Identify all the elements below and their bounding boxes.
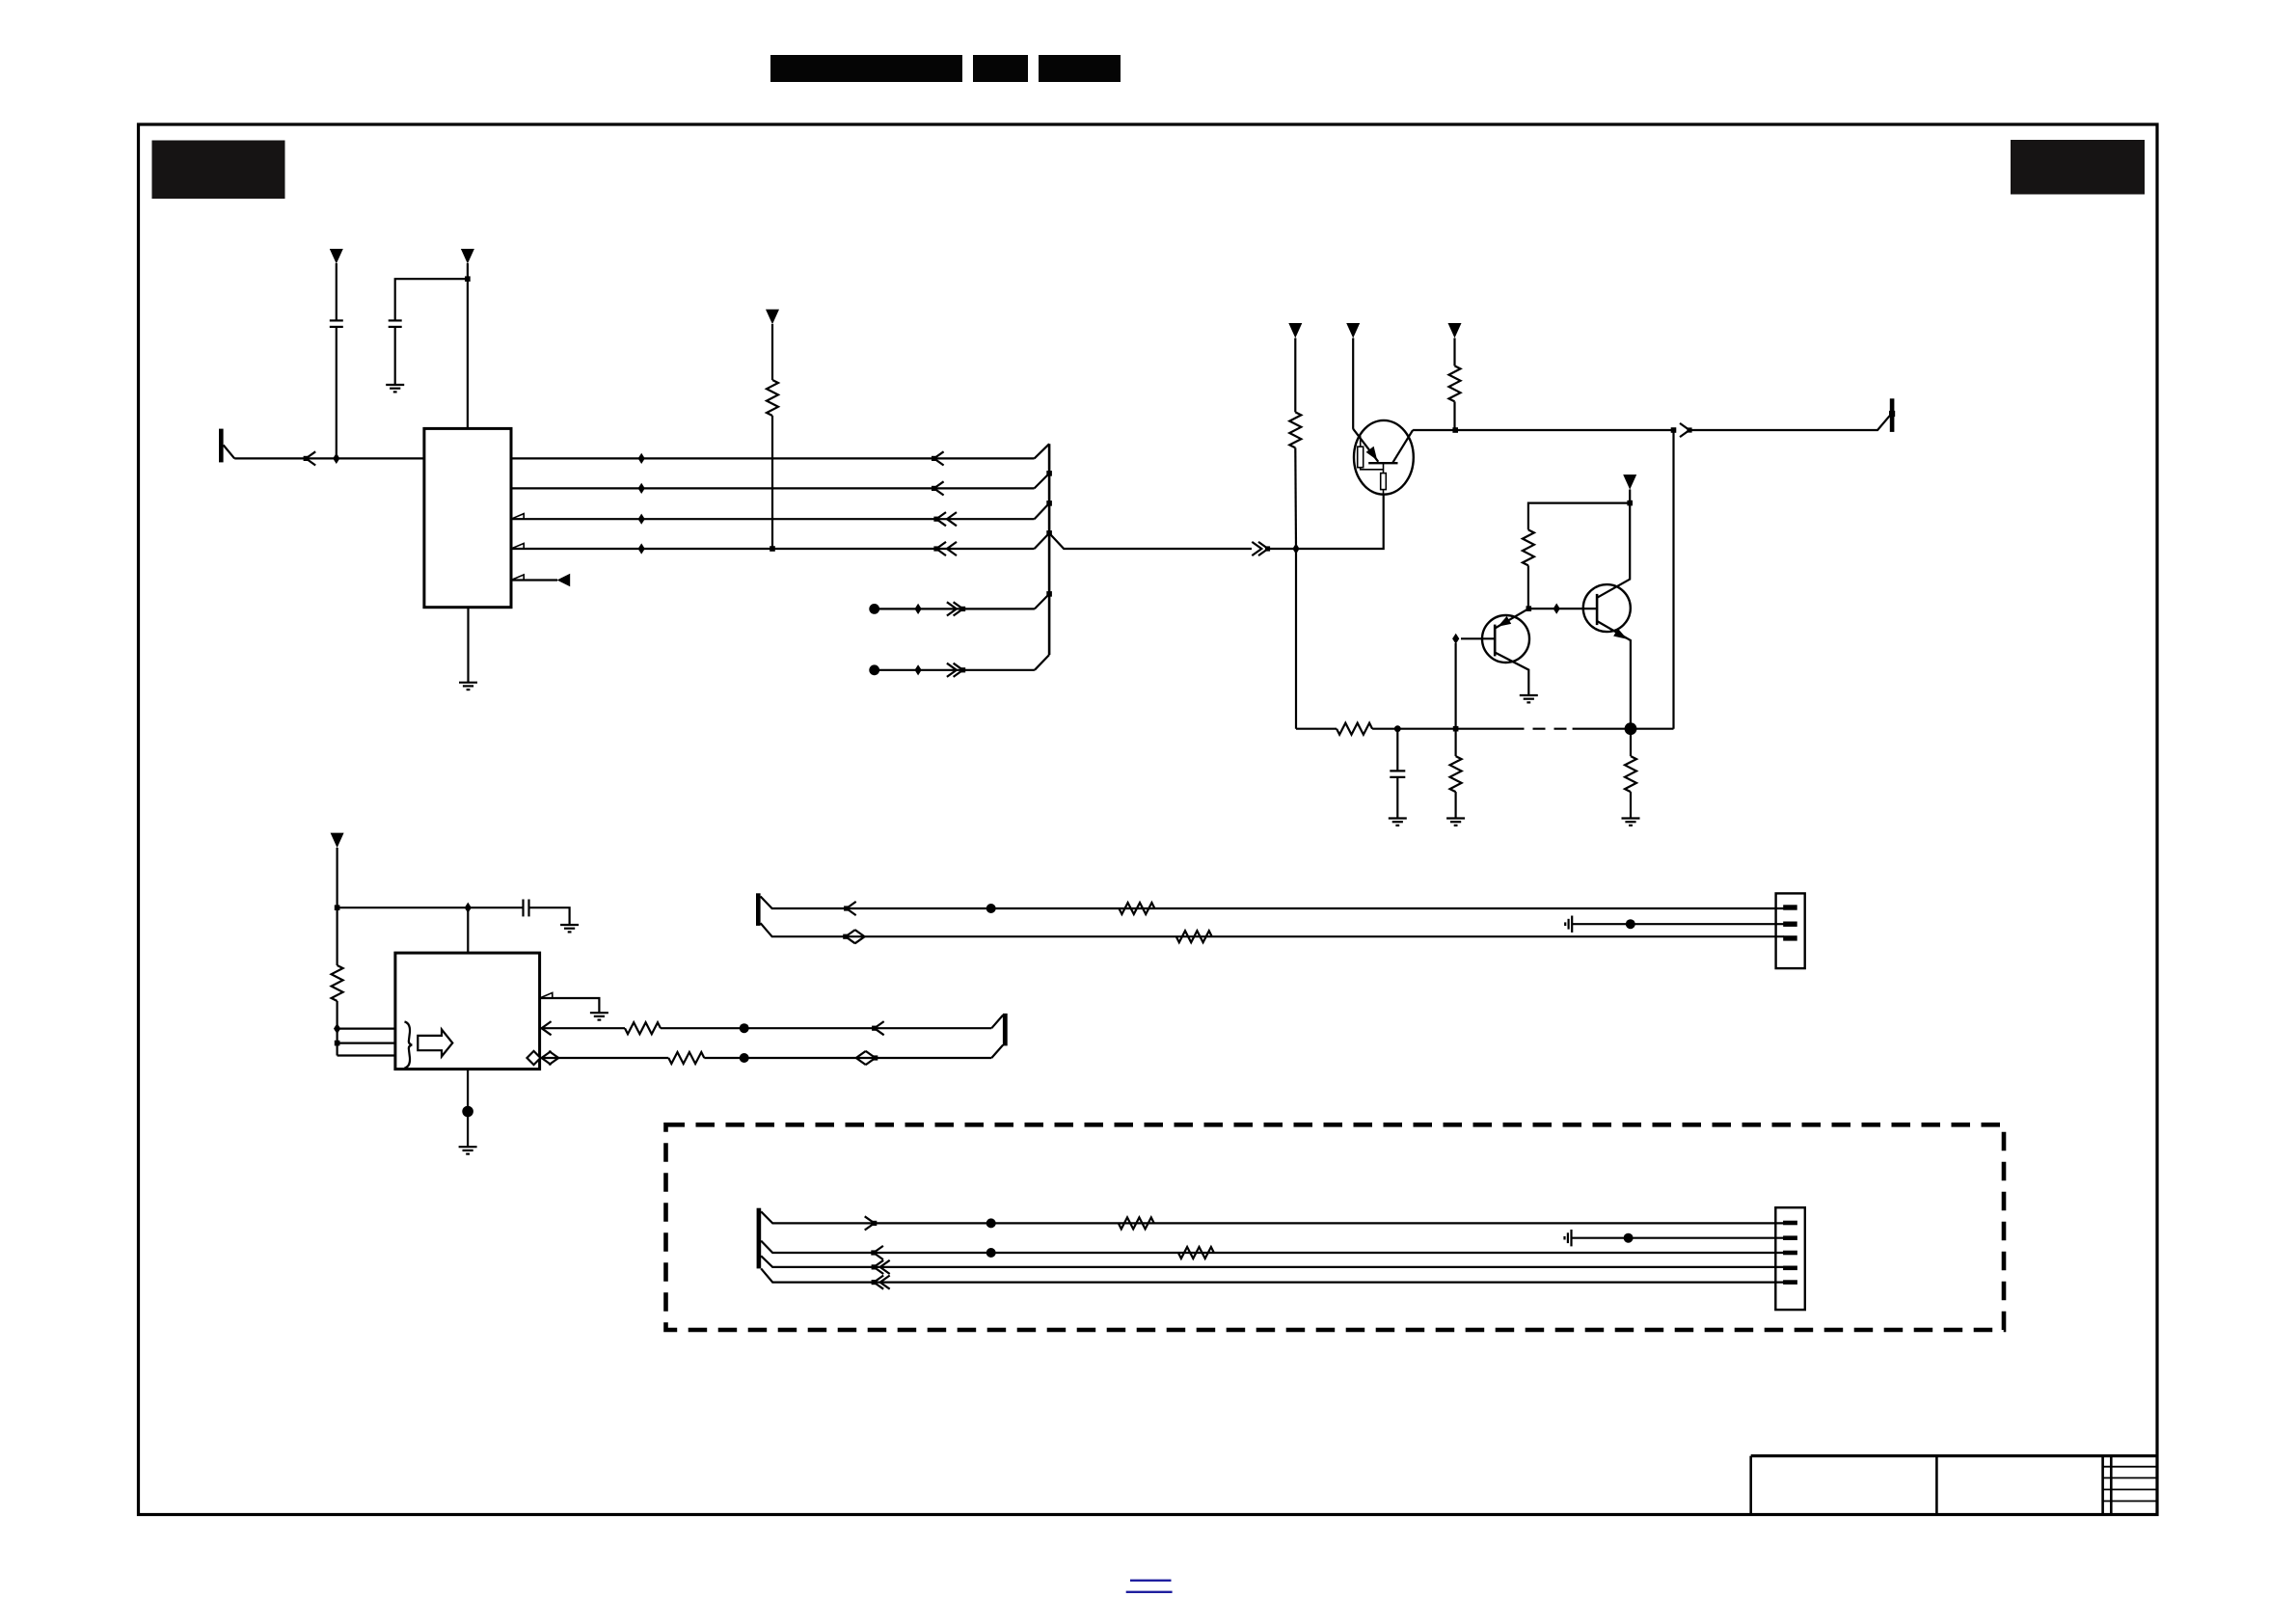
connector J2 [1775, 1207, 1805, 1310]
double arrowhead pin4 wire [933, 512, 957, 526]
wire VCC7 to R4 [1528, 503, 1630, 530]
node on bus at pin3 [1046, 471, 1052, 476]
cable fan wire C [761, 1256, 1784, 1267]
bus entry wire stub A [1035, 594, 1049, 609]
bottom rail wire segment 2 [1372, 728, 1511, 730]
node dot gnd feed (dashed box) [1624, 1233, 1634, 1243]
wire R10 to conn net [704, 1057, 991, 1059]
wire U2 VCC pin [467, 907, 469, 953]
junction diamond Q3 base [1553, 604, 1560, 614]
node junction VCC7 [1627, 501, 1633, 506]
junction diamond Q2 base [1452, 634, 1459, 644]
redaction box top-left [152, 141, 285, 200]
U2 ground lead [467, 1069, 469, 1147]
node junction R3/rail [1452, 427, 1458, 433]
node dot rail/Q3 emitter [1625, 722, 1637, 735]
wire Q2 emitter to Q3 base [1528, 608, 1597, 609]
net stub NODE-B [869, 664, 1035, 675]
double arrowhead pin5 wire [933, 542, 957, 555]
wire R1 to pin5 net [771, 416, 773, 549]
resistor R1 [767, 380, 778, 416]
redaction box top-right [2011, 140, 2145, 195]
bus entry wire stub B [1035, 655, 1049, 670]
cable fan wire 2 [761, 923, 1784, 936]
double arrowhead stub A [947, 602, 965, 615]
junction diamond stub B [915, 664, 922, 675]
wire Q1 collector rail [1413, 429, 1673, 431]
node dot on pinR3 net [740, 1053, 749, 1063]
cable fan wire B [761, 1241, 1784, 1253]
arrowhead on rail [1680, 423, 1692, 437]
resistor R4 [1523, 529, 1534, 565]
junction diamond U2 VCC [465, 903, 472, 913]
pin flag U1 pin6 [511, 575, 524, 581]
double arrowhead on Q1 base net [1252, 542, 1270, 555]
wire net IN to U1 pin1 [234, 457, 424, 459]
junction diamond pin3 wire [638, 483, 645, 494]
node junction rail/right drop [1671, 427, 1677, 433]
resistor R13 (inline wire A) [1119, 1217, 1154, 1229]
ground below R6 [1446, 819, 1465, 826]
ground below C3 [1389, 819, 1407, 826]
node on bus at pin5 [1046, 530, 1052, 536]
wire base net down to bottom rail [1295, 549, 1297, 729]
resistor R11 (inline wire1) [1119, 903, 1154, 914]
junction diamond on IN wire [333, 453, 339, 464]
node dot wire1 [986, 904, 996, 913]
capacitor C3 [1390, 729, 1405, 819]
ground right of C4 [560, 925, 579, 932]
resistor R14 (inline wire B) [1178, 1247, 1214, 1259]
wire U1 pin5 [511, 548, 1035, 550]
bus entry wire pin5 [1035, 533, 1050, 549]
junction diamond stub A [915, 604, 922, 614]
double arrowhead stub B [947, 663, 965, 677]
arrowhead mid pinR2 net [872, 1021, 884, 1035]
power symbol VCC4 [1288, 323, 1302, 412]
junction diamond U2 pin1 [334, 1023, 340, 1034]
arrowhead wire A (right) [865, 1216, 878, 1230]
capacitor C1 [330, 320, 343, 458]
block arrow symbol inside U2 [418, 1030, 452, 1057]
junction diamond pin2 wire [638, 453, 645, 464]
resistor R10 [668, 1052, 704, 1064]
resistor R9 [625, 1022, 661, 1034]
transistor Q1 (digital PNP) [1353, 420, 1414, 495]
node junction VCC8 [335, 905, 340, 910]
connector J1 [1776, 893, 1805, 968]
U1 ground lead [467, 608, 469, 683]
wire U1 pin3 [511, 487, 1035, 489]
cable bar left (dashed box) [757, 1208, 762, 1269]
bottom rail wire [1296, 728, 1337, 730]
node junction U2 pin2 [335, 1041, 340, 1046]
arrowhead pin2 wire [932, 451, 944, 465]
node dot wire B [986, 1248, 996, 1258]
IC U1 [424, 428, 511, 607]
double arrowhead wire C [872, 1260, 890, 1274]
arrowhead on IN wire [304, 451, 316, 465]
sideways ground feed wire [1565, 916, 1784, 933]
wire U2 pin3 [338, 1054, 395, 1056]
bus line B1 [1048, 444, 1051, 655]
bus entry wire pin3 [1035, 474, 1050, 489]
node dot gnd feed [1626, 919, 1635, 929]
cable bar left (top group) [756, 893, 761, 926]
node dot wire A [986, 1218, 996, 1228]
IC U2 [395, 953, 540, 1069]
resistor R12 (inline wire2) [1176, 931, 1212, 942]
resistor R5 [1337, 723, 1372, 735]
hyperlink underline 1 [1130, 1580, 1172, 1582]
redaction bar top 1 [770, 55, 962, 82]
cable bar right [1003, 1014, 1008, 1046]
wire R2 to base net [1294, 447, 1297, 549]
wire R3 to collector rail [1453, 401, 1455, 430]
node on bus at stub A [1046, 591, 1052, 597]
resistor R6 [1450, 729, 1462, 819]
double arrowhead wire D [872, 1276, 890, 1289]
pin flag U2 pinR1 [540, 992, 553, 998]
power symbol VCC2 [461, 249, 474, 428]
node junction on VCC2 line [465, 276, 471, 282]
power symbol VCC8 [331, 833, 344, 908]
brace symbol inside U2 [405, 1022, 413, 1069]
ground at U2 pinR1 [590, 1013, 608, 1019]
wire Q2 base down to bottom rail [1454, 643, 1456, 729]
arrowhead U2 pinR2 [542, 1021, 552, 1035]
double arrow wire2 [843, 930, 864, 943]
node dot on pinR2 net [740, 1023, 749, 1033]
title block [1751, 1456, 2157, 1515]
sideways ground feed wire (dashed box) [1565, 1230, 1785, 1246]
resistor R7 [1625, 729, 1636, 819]
cable fan wire 1 [761, 897, 1784, 909]
resistor R3 [1449, 365, 1461, 401]
node junction rail/Q2 base drop [1453, 726, 1459, 732]
arrowhead wire B (left) [871, 1246, 883, 1259]
arrowhead pin3 wire [932, 481, 944, 495]
bus entry to connector bar right 2 [991, 1045, 1003, 1059]
redaction bar top 3 [1039, 55, 1121, 82]
bottom rail wire segment 3 [1573, 728, 1674, 730]
ground below U1 [459, 683, 477, 690]
node junction Q2 emitter [1526, 606, 1532, 611]
ground below R7 [1622, 819, 1640, 826]
arrow terminal pin6 [557, 574, 571, 587]
wire U2 pinR3 [541, 1057, 669, 1059]
redaction bar top 2 [973, 55, 1028, 82]
wire right drop to bottom rail [1672, 430, 1674, 729]
bus entry wire pin4 [1035, 503, 1050, 519]
wire Q1 base net [1268, 494, 1384, 549]
wire branch to C2 [395, 279, 468, 320]
dashed option box [666, 1124, 2005, 1330]
wire U2 pin1 [338, 1027, 395, 1029]
wire R4 to Q2 emitter node [1527, 565, 1529, 609]
junction diamond pin4 wire [638, 514, 645, 525]
wire VCC8 rail to C4 [338, 907, 523, 908]
power symbol VCC7 [1623, 474, 1636, 579]
open diamond flag U2 pinR3 [527, 1051, 541, 1065]
transistor Q3 (NPN) [1583, 579, 1631, 729]
bus entry wire pin2 [1035, 444, 1050, 458]
node dot U2 ground [462, 1106, 473, 1118]
power symbol VCC1 [330, 249, 343, 320]
wire rail to off-page OUT [1691, 416, 1890, 430]
ground below Q2 [1520, 695, 1538, 702]
bus exit wire to Q1 base net [1049, 533, 1252, 549]
wire U1 pin4 [511, 518, 1035, 520]
ground below U2 [459, 1147, 477, 1153]
node junction R1/pin5 [770, 546, 775, 552]
junction diamond pin5 wire [638, 543, 645, 554]
off-page connector J-OUT [1889, 398, 1895, 432]
dashed rail segment [1512, 728, 1573, 730]
cable fan wire D [761, 1268, 1784, 1282]
ground below C2 [386, 385, 404, 392]
wire R9 to conn net [661, 1027, 991, 1029]
hyperlink underline 2 [1126, 1591, 1173, 1593]
power symbol VCC5 [1346, 323, 1360, 429]
transistor Q2 (PNP) [1482, 609, 1529, 695]
node on bus at pin4 [1046, 501, 1052, 506]
arrowhead wire1 [844, 902, 856, 915]
power symbol VCC3 [766, 310, 779, 380]
capacitor C4 [524, 900, 570, 925]
resistor R8 [332, 907, 343, 1055]
power symbol VCC6 [1448, 323, 1462, 365]
resistor R2 [1289, 412, 1301, 447]
wire U1 pin2 [511, 457, 1035, 459]
border frame [139, 124, 2158, 1515]
net stub NODE-A [869, 604, 1035, 614]
junction diamond Q1 base net [1292, 543, 1299, 554]
wire U2 pinR2 [540, 1027, 625, 1029]
double arrowhead mid pinR3 net [856, 1051, 878, 1065]
pin flag U1 pin5 [511, 543, 524, 549]
wire U1 pin6 stub [511, 579, 557, 581]
cable fan wire A [761, 1211, 1784, 1223]
wire U2 pinR1 to ground [540, 998, 600, 1013]
off-page connector J-left [219, 429, 234, 463]
bus entry to connector bar right [991, 1015, 1003, 1029]
pin flag U1 pin4 [511, 514, 524, 520]
double arrow U2 pinR3 [542, 1051, 559, 1065]
node dot on rail at C3 [1394, 725, 1401, 732]
capacitor C2 [389, 320, 402, 385]
wire U2 pin2 [338, 1042, 395, 1043]
wire Q2 base [1461, 637, 1495, 639]
